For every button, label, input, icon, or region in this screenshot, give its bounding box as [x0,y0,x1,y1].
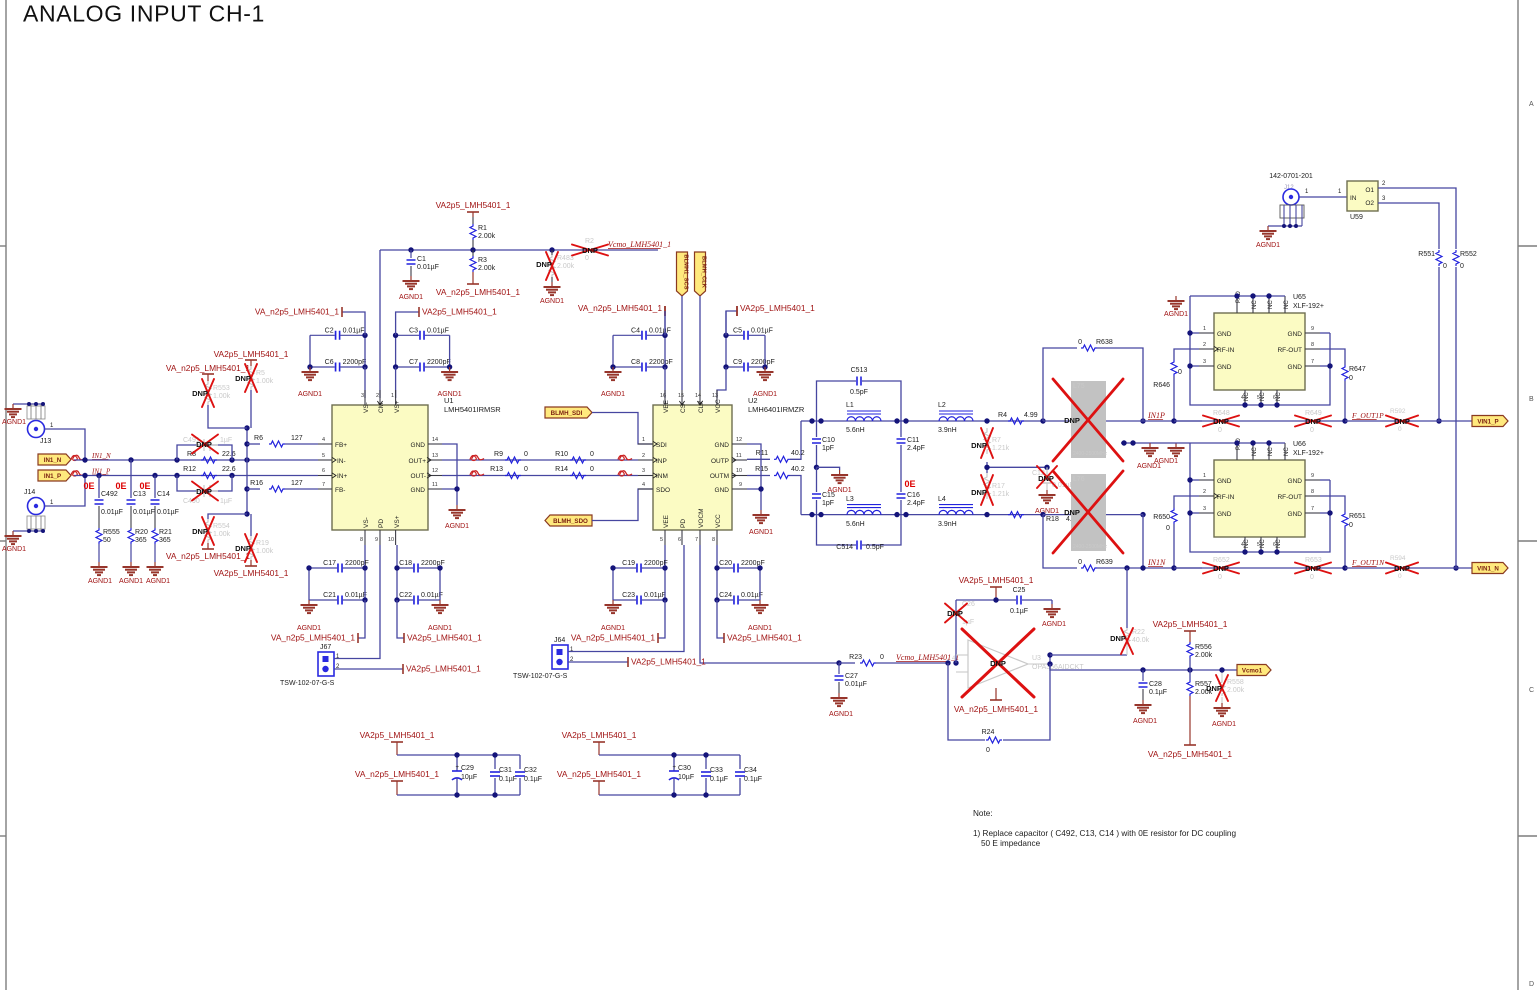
U65 bottom pins 4 5 6 (NC NC NC) [1241,390,1282,405]
svg-text:0.1µF: 0.1µF [524,776,542,783]
svg-text:DNP: DNP [1064,416,1080,425]
svg-text:7: 7 [322,482,325,488]
svg-text:3: 3 [1203,359,1206,365]
svg-text:C22: C22 [399,592,412,599]
svg-text:0: 0 [1349,522,1353,529]
resistor R15 40.2 [747,466,805,515]
svg-text:40.0k: 40.0k [1132,637,1150,644]
U2 left pins 1 2 3 4 (SDI INP INM SDO) [638,437,670,494]
svg-text:INM: INM [656,473,668,480]
svg-text:AGND1: AGND1 [297,625,321,632]
svg-text:0.1µF: 0.1µF [744,776,762,783]
svg-text:AGND1: AGND1 [749,529,773,536]
svg-text:C7: C7 [409,359,418,366]
svg-text:U65: U65 [1293,294,1306,301]
svg-text:R649: R649 [1305,410,1322,417]
DNP resistor R5 1.00k (crossed) [235,364,274,392]
wire R7-R17 mid tap [986,462,988,473]
svg-text:13: 13 [712,393,718,399]
svg-text:0: 0 [1218,427,1222,434]
U1 top pins 3 2 1 (VS- CM VS+) [361,390,401,413]
svg-text:3: 3 [642,468,645,474]
capacitor C34 0.1µF [735,755,762,795]
svg-text:IN1N: IN1N [1147,558,1166,567]
svg-text:ANALOG INPUT CH-1: ANALOG INPUT CH-1 [23,1,265,27]
DNP resistor R594 (crossed) [1386,555,1418,580]
node dots output joins [1342,418,1458,570]
svg-text:R651: R651 [1349,513,1366,520]
U66 ground perimeter wires [1190,442,1285,444]
U65 top pins PAD NC NC NC [1236,290,1290,313]
svg-text:L1: L1 [846,402,854,409]
ground AGND1 right of U1 [456,505,458,510]
svg-text:Note:: Note: [973,809,993,818]
svg-text:0: 0 [880,654,884,661]
resistor R12 22.6 [183,466,236,479]
splitter U59 body [1347,181,1378,221]
U65 right pins 9 8 7 (GND RF-OUT GND) [1277,326,1320,371]
node dot filter mid [814,465,819,470]
svg-text:R7: R7 [992,437,1001,444]
svg-text:1pF: 1pF [822,500,834,507]
svg-text:F_OUT1N: F_OUT1N [1351,558,1385,567]
svg-text:R18: R18 [1046,516,1059,523]
node dots U65 gnd [1187,293,1332,407]
svg-text:DNP: DNP [1305,564,1321,573]
net flag BLMH_SDO [545,489,653,526]
svg-text:R17: R17 [992,483,1005,490]
svg-text:DNP: DNP [192,527,208,536]
wire rails of cap pair [395,335,397,367]
svg-text:2: 2 [642,453,645,459]
svg-text:NC: NC [1284,447,1290,456]
ground AGND1 mid (left of U66) [1149,443,1151,448]
svg-text:5.6nH: 5.6nH [846,521,865,528]
svg-text:VA2p5_LMH5401_1: VA2p5_LMH5401_1 [562,730,637,740]
DNP capacitor C17b (crossed) to ground [1032,466,1074,490]
power flag VA_n2p5_LMH5401_1 (U2 VEE) [578,303,665,316]
svg-text:OUTM: OUTM [710,473,729,480]
capacitor C17 2200pF [309,560,369,573]
svg-text:GND: GND [715,487,730,494]
svg-text:127: 127 [291,435,303,442]
svg-text:2400-2500MHz: 2400-2500MHz [1073,544,1108,550]
svg-text:R2: R2 [585,238,594,245]
svg-text:DNP: DNP [990,659,1006,668]
DNP capacitor loop below R12 [177,476,232,506]
svg-text:C10: C10 [822,437,835,444]
capacitor C19 2200pF [613,560,668,573]
node dots bias rail [244,425,249,516]
svg-text:R1: R1 [478,225,487,232]
power flag VA_n2p5_LMH5401_1 [271,600,365,643]
svg-text:3.9nH: 3.9nH [938,427,957,434]
svg-text:OUT+: OUT+ [408,458,426,465]
resistor R9 0 [494,451,528,463]
resistor R647 0 [1320,349,1366,421]
DNP resistor R553 1.00k (crossed) [192,379,231,407]
net flag VIN1_N [1472,563,1508,574]
power flag VA2p5_LMH5401_1 (C30 group) [562,730,740,755]
wire filter top rail [801,420,1043,422]
svg-text:XLF-192+: XLF-192+ [1293,450,1324,457]
wire rail to R554/R19 [208,514,247,519]
svg-text:2200pF: 2200pF [343,359,367,366]
svg-text:C29: C29 [461,765,474,772]
svg-text:R638: R638 [1096,339,1113,346]
power flag VA2p5_LMH5401_1 [397,600,482,643]
svg-text:OUT-: OUT- [410,473,426,480]
svg-text:R646: R646 [1153,382,1170,389]
svg-text:0.01µF: 0.01µF [417,264,439,271]
ground AGND1 of cap pair [612,367,614,372]
svg-text:NC: NC [1276,539,1282,548]
svg-text:AGND1: AGND1 [298,391,322,398]
diff pair squiggles OUT lines [470,455,632,476]
capacitor C24 0.01µF [717,592,763,605]
wire rails bottom cap pair [612,568,614,600]
svg-text:50: 50 [103,537,111,544]
U66 bottom pins 4 5 6 (NC NC NC) [1241,537,1282,552]
resistor R18 4.99 [1008,512,1080,523]
svg-text:0.01µF: 0.01µF [101,509,123,516]
ground AGND1 J14 [12,531,14,536]
svg-text:CLK: CLK [698,400,705,413]
svg-text:PD: PD [680,519,687,528]
svg-text:R647: R647 [1349,366,1366,373]
svg-text:C492: C492 [101,491,118,498]
svg-text:2: 2 [376,393,379,399]
wire IN1N to DNP R652 [1174,567,1345,569]
svg-text:5: 5 [1257,395,1260,401]
wire IN1P through L75 [1043,420,1202,422]
power flag VA2p5_LMH5401_1 (J64 pin2) [568,657,706,668]
DNP filter module L75 (crossed) [1053,379,1123,461]
power flag VA2p5_LMH5401_1 (R5) [214,349,289,366]
capacitor C22 0.01µF [397,592,443,605]
wire OUT- U1 to U2 [442,475,638,477]
resistor R20 365 [128,506,148,562]
svg-text:AGND1: AGND1 [119,578,143,585]
DNP resistor R554 1.00k (crossed) [192,517,231,549]
svg-text:R24: R24 [982,729,995,736]
svg-text:R4: R4 [998,412,1007,419]
ground AGND1 under C28 [1142,700,1144,705]
svg-text:0E: 0E [83,481,94,491]
U2 top pins 16 15 14 13 (VEE CS CLK VCC) [660,390,722,413]
inductor L4 3.9nH [938,496,973,528]
node dots mid tap [984,465,1049,470]
svg-text:2: 2 [1203,342,1206,348]
capacitor C31 0.1µF [490,755,517,795]
node dots bottom cap pair [714,565,762,602]
capacitor C18 2200pF [397,560,445,573]
svg-text:IN1P: IN1P [1147,411,1165,420]
svg-text:NC: NC [1252,447,1258,456]
svg-text:14: 14 [432,437,438,443]
svg-text:R639: R639 [1096,559,1113,566]
net flag IN1_P [38,468,111,482]
wire VS+ rail into U1 pin1 [395,367,397,398]
svg-text:R19: R19 [256,540,269,547]
net flag BLMH1_SCS (vertical) [677,252,689,390]
svg-text:R555: R555 [103,529,120,536]
svg-text:AGND1: AGND1 [146,578,170,585]
svg-text:22.6: 22.6 [222,451,236,458]
ground AGND1 bottom cap pair [439,600,441,605]
svg-text:CM: CM [378,403,385,413]
svg-text:2400-2500MHz: 2400-2500MHz [1073,451,1108,457]
node dots J14 shield [27,529,45,533]
svg-text:5: 5 [322,453,325,459]
wire IN1P to DNP R648 [1174,420,1345,422]
svg-text:0: 0 [1218,574,1222,581]
capacitor C16 2.4pF [897,492,925,515]
svg-text:C25: C25 [1013,587,1026,594]
svg-text:11: 11 [432,482,438,488]
node dot U2 gnd [758,486,763,491]
svg-text:C2: C2 [325,327,334,334]
svg-text:C32: C32 [524,767,537,774]
svg-text:GND: GND [1217,364,1232,371]
svg-text:0: 0 [1443,263,1447,270]
capacitor C492 0.01µF [95,476,123,517]
svg-text:GND: GND [1217,511,1232,518]
U59 output wires [1378,181,1456,568]
wire rails of cap pair [612,335,614,367]
svg-text:10: 10 [388,537,394,543]
svg-text:C19: C19 [622,560,635,567]
svg-text:8: 8 [1311,342,1314,348]
svg-text:1: 1 [391,393,394,399]
ground AGND1 bottom cap pair [308,600,310,605]
svg-text:DNP: DNP [947,609,963,618]
svg-text:VCC: VCC [715,399,722,413]
svg-text:IN+: IN+ [337,473,348,480]
wire rails bottom cap pair [308,568,310,600]
svg-text:R3: R3 [478,257,487,264]
svg-text:0.5pF: 0.5pF [850,389,868,396]
power flag VA2p5_LMH5401_1 (R556) [1153,619,1228,642]
ground AGND1 under C27 [838,693,840,698]
net flag BLMH_SDI [545,407,653,444]
svg-text:R553: R553 [213,385,230,392]
svg-text:AGND1: AGND1 [540,298,564,305]
ground AGND1 under R20 [130,562,132,567]
U1 left pins 4 5 6 7 (FB+ IN- IN+ FB-) [318,437,348,494]
capacitor C10 1pF [812,421,835,467]
ground AGND1 J13 [12,404,14,409]
svg-text:0.01µF: 0.01µF [751,327,773,334]
node dots IN1P/IN1N main [1040,418,1145,517]
svg-text:2200pF: 2200pF [751,359,775,366]
filter U65 XLF-192+ body [1214,294,1324,390]
net flag BLMH_CLK (vertical) [695,252,707,390]
capacitor C7 2200pF [396,359,451,372]
svg-text:R23: R23 [849,654,862,661]
svg-text:AGND1: AGND1 [1256,242,1280,249]
svg-text:0.01µF: 0.01µF [845,681,867,688]
svg-text:R13: R13 [490,466,503,473]
svg-text:5: 5 [1257,542,1260,548]
svg-text:7: 7 [695,537,698,543]
svg-text:L75: L75 [1073,383,1085,390]
svg-text:0.1µF: 0.1µF [499,776,517,783]
DNP resistor R483 2.00k (crossed) [536,250,575,282]
ground AGND1 filter mid [839,470,841,475]
svg-text:10µF: 10µF [461,774,477,781]
ground AGND1 of cap pair [764,367,766,372]
svg-text:NC: NC [1260,539,1266,548]
svg-text:VA2p5_LMH5401_1: VA2p5_LMH5401_1 [406,664,481,674]
wire bias rail [246,428,248,514]
svg-text:VA2p5_LMH5401_1: VA2p5_LMH5401_1 [422,307,497,317]
svg-text:R554: R554 [213,523,230,530]
wire IN1_P [74,475,318,477]
svg-text:AGND1: AGND1 [1164,311,1188,318]
svg-text:GND: GND [1288,478,1303,485]
svg-text:AGND1: AGND1 [445,523,469,530]
svg-text:VA_n2p5_LMH5401_1: VA_n2p5_LMH5401_1 [571,633,655,643]
capacitor C5 0.01µF [726,327,773,340]
svg-text:2200pF: 2200pF [649,359,673,366]
power flag VA_n2p5_LMH5401_1 (C30 group) [557,769,740,795]
svg-text:5: 5 [660,537,663,543]
svg-text:142-0701-201: 142-0701-201 [1269,173,1313,180]
svg-text:VS-: VS- [363,517,370,528]
svg-text:C20: C20 [719,560,732,567]
capacitor C29 10µF (polarized) [452,755,477,795]
svg-text:1.00k: 1.00k [256,548,274,555]
svg-text:0.1µF: 0.1µF [1149,689,1167,696]
power flag VA2p5_LMH5401_1 (U2 VCC) [737,303,815,316]
wire R553 to rail [208,405,247,428]
svg-text:0: 0 [590,466,594,473]
ground AGND1 of cap pair [309,367,311,372]
svg-text:TSW-102-07-G-S: TSW-102-07-G-S [513,673,568,680]
capacitor C11 2.4pF [897,421,925,492]
resistor R650 0 [1153,496,1199,568]
inductor L3 5.6nH [846,496,881,528]
svg-text:R650: R650 [1153,514,1170,521]
node dots bottom cap pair [610,565,667,602]
wire IN1N continues [1143,567,1202,569]
svg-text:3: 3 [1203,506,1206,512]
resistor R23 0 [839,654,948,666]
svg-text:AGND1: AGND1 [601,625,625,632]
svg-text:R6: R6 [254,435,263,442]
svg-text:0.5pF: 0.5pF [866,544,884,551]
svg-text:C34: C34 [744,767,757,774]
svg-text:DNP: DNP [971,488,987,497]
svg-text:U1: U1 [444,396,454,405]
power flag VA2p5_LMH5401_1 (R1 top) [436,200,511,217]
resistor R21 365 [152,506,172,562]
svg-text:+: + [672,765,676,771]
svg-text:RF-IN: RF-IN [1217,494,1235,501]
power flag VA_n2p5_LMH5401_1 (C29 group) [355,769,520,795]
connector J13 SMA [28,421,55,446]
svg-text:AGND1: AGND1 [428,625,452,632]
svg-text:6: 6 [1273,395,1276,401]
wire OUT+ U1 to U2 [442,459,638,461]
svg-text:NC: NC [1244,392,1250,401]
wire J12 pin1 to U59 [1300,189,1348,197]
svg-text:R551: R551 [1418,251,1435,258]
svg-text:U3: U3 [1032,655,1041,662]
svg-text:AGND1: AGND1 [88,578,112,585]
svg-text:DNP: DNP [192,389,208,398]
DNP resistor R648 0 (crossed) [1203,410,1239,434]
svg-text:VA2p5_LMH5401_1: VA2p5_LMH5401_1 [1153,619,1228,629]
svg-text:IN-: IN- [337,458,346,465]
wire VS- rail into U1 pin3 [364,367,366,398]
svg-text:AGND1: AGND1 [1042,621,1066,628]
svg-text:0: 0 [524,466,528,473]
svg-text:3: 3 [361,393,364,399]
svg-text:1.00k: 1.00k [256,378,274,385]
resistor R551 0 [1418,250,1447,270]
svg-text:O2: O2 [1365,200,1374,207]
ground AGND1 U66 [1175,443,1177,448]
svg-text:C490: C490 [183,498,200,505]
svg-text:L76: L76 [1073,476,1085,483]
svg-text:0.1µF: 0.1µF [710,776,728,783]
svg-text:C513: C513 [851,367,868,374]
svg-text:L3: L3 [846,496,854,503]
svg-text:DNP: DNP [196,487,212,496]
svg-text:VIN1_N: VIN1_N [1477,565,1499,572]
U2 right pins 12 11 10 9 (GND OUTP OUTM GND) [710,437,747,494]
U1 bottom pins 8 9 10 (VS- PD VS+) [360,515,401,545]
svg-text:R20: R20 [135,529,148,536]
svg-text:NC: NC [1244,539,1250,548]
DNP filter module L76 (crossed) [1053,471,1123,553]
wire rails bottom cap pair [716,568,718,600]
svg-text:4: 4 [1241,542,1244,548]
DNP resistor R652 0 (crossed) [1203,557,1239,581]
capacitor C9 2200pF [726,359,775,372]
inductor L2 3.9nH [938,402,973,434]
DNP resistor R558 2.00k (crossed) [1206,670,1245,703]
frame border right [1518,0,1537,990]
svg-text:VA_n2p5_LMH5401_1: VA_n2p5_LMH5401_1 [166,363,250,373]
svg-text:PD: PD [378,519,385,528]
svg-text:10: 10 [736,468,742,474]
svg-text:1.21k: 1.21k [992,491,1010,498]
wire U1 pin8 to C17 rail [364,545,366,568]
op-amp U1 LMH5401IRMSR body [332,396,501,530]
capacitor C514 0.5pF (bottom loop) [817,515,902,551]
power flag VA_n2p5_LMH5401_1 (R553) [166,363,250,381]
svg-text:1.00k: 1.00k [213,531,231,538]
svg-text:2.00k: 2.00k [1195,652,1213,659]
svg-text:AGND1: AGND1 [2,546,26,553]
wire U3 out to right [1050,654,1127,656]
svg-text:VA2p5_LMH5401_1: VA2p5_LMH5401_1 [959,575,1034,585]
svg-text:VA_n2p5_LMH5401_1: VA_n2p5_LMH5401_1 [954,704,1038,714]
filter U66 XLF-192+ body [1214,441,1324,537]
svg-text:8: 8 [1311,489,1314,495]
resistor R8 22.6 [187,451,236,463]
svg-text:SDI: SDI [656,442,667,449]
connector J67 TSW-102-07-G-S [280,644,340,687]
svg-text:VA2p5_LMH5401_1: VA2p5_LMH5401_1 [727,633,802,643]
svg-text:FB-: FB- [335,487,345,494]
svg-text:0: 0 [585,255,589,262]
wire VOCM from U2 to R23 [700,545,839,663]
resistor R556 2.00k [1187,642,1213,670]
